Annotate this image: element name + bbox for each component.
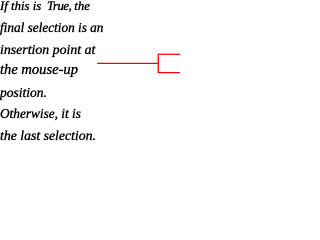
caption line 1 [0, 0, 90, 12]
caption line 7 [0, 129, 96, 143]
caption line 3 [0, 43, 95, 57]
leader line [97, 62, 158, 64]
caption line 6 [0, 107, 81, 120]
caption line 5 [0, 86, 47, 100]
caption line 2 [0, 21, 103, 34]
caption line 4 [0, 63, 78, 78]
callout bracket box (open at right edge) [158, 54, 182, 72]
red callout graphics [0, 0, 180, 141]
